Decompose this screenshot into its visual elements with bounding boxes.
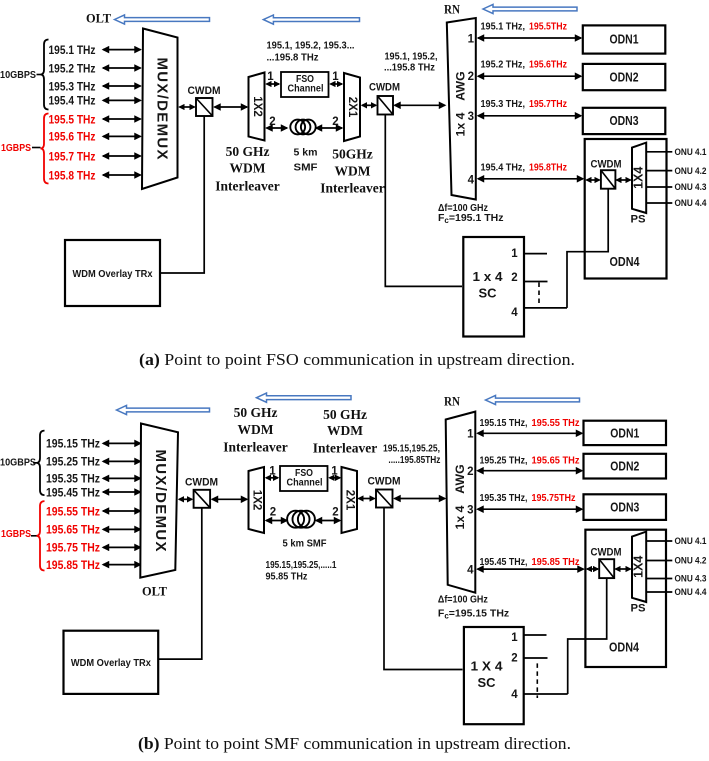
wire AWG port2 to ODN2 (a): [478, 75, 581, 77]
svg-text:...195.8 THz: ...195.8 THz: [267, 52, 319, 64]
svg-text:ONU 4.3: ONU 4.3: [675, 182, 707, 193]
wire CWDM to splitter 1X4 (b): [616, 568, 631, 570]
svg-text:ONU 4.4: ONU 4.4: [675, 587, 708, 598]
svg-text:195.25 THz,: 195.25 THz,: [480, 455, 528, 467]
tick 1GBPS to bracket (b): [31, 535, 37, 537]
splitter CWDM (b-OLT): [194, 490, 211, 508]
svg-text:AWG: AWG: [453, 464, 467, 493]
svg-text:SC: SC: [479, 286, 498, 301]
wire CWDM down to SC (b): [384, 508, 463, 670]
splitter CWDM (b-ODN4): [599, 559, 614, 578]
svg-text:195.15 THz,: 195.15 THz,: [480, 417, 528, 429]
svg-text:MUX/DEMUX: MUX/DEMUX: [152, 450, 169, 552]
svg-text:195.15,195.25,: 195.15,195.25,: [383, 443, 440, 455]
wire MUX to CWDM (b): [179, 498, 192, 500]
net labels row3 (b): [480, 492, 576, 504]
svg-text:WDM: WDM: [230, 161, 266, 176]
svg-text:Interleaver: Interleaver: [320, 181, 384, 196]
wire AWG port1 to ODN1 (a): [478, 37, 581, 39]
wire to ONU 4.3 (a): [646, 186, 672, 188]
svg-text:3: 3: [467, 505, 473, 517]
wire CWDM down to WDM Overlay TRx (a): [161, 117, 204, 274]
wire 1X2 to coil (b): [266, 520, 287, 522]
upstream arrow a3: [483, 4, 577, 13]
wire to ONU 4.1 (a): [646, 151, 672, 153]
svg-text:1GBPS: 1GBPS: [1, 143, 31, 154]
wire CWDM down junction (a-ODN4): [567, 189, 608, 308]
svg-text:195.15,195.25,.....1: 195.15,195.25,.....1: [266, 559, 337, 571]
svg-text:MUX/DEMUX: MUX/DEMUX: [154, 58, 171, 160]
svg-text:1: 1: [467, 429, 474, 441]
svg-text:Interleaver: Interleaver: [313, 441, 377, 456]
wire CWDM to AWG (b): [395, 498, 446, 500]
wire AWG port3 to ODN3 (a): [478, 115, 581, 117]
svg-text:5 km SMF: 5 km SMF: [283, 538, 328, 550]
svg-text:ONU 4.2: ONU 4.2: [675, 556, 707, 567]
wire MUX to CWDM (a): [180, 106, 195, 108]
svg-text:195.1 THz,: 195.1 THz,: [481, 21, 526, 33]
wire AWG port4 to ODN4 (b): [478, 568, 584, 570]
upstream arrow a2: [263, 15, 359, 24]
net labels row1 (a): [481, 21, 568, 33]
odn ODN3 (a): [583, 108, 666, 134]
splitter 1X4 PS (b): [632, 532, 646, 602]
svg-text:4: 4: [467, 565, 474, 577]
wire to ONU 4.2 (b): [646, 560, 672, 562]
svg-text:195.85 THz: 195.85 THz: [46, 558, 100, 572]
svg-text:195.1, 195.2, 195.3...: 195.1, 195.2, 195.3...: [267, 40, 355, 52]
svg-text:2X1: 2X1: [346, 97, 358, 118]
tick 1GBPS to bracket (a): [32, 147, 41, 149]
node 195.2 THz with wire (a-left row 2): [49, 61, 141, 75]
node 195.6 THz with wire (a-left row 6): [49, 130, 141, 144]
wire CWDM down to WDM Overlay TRx (b): [159, 508, 202, 659]
svg-text:195.55 THz: 195.55 THz: [46, 504, 100, 518]
svg-text:(a) Point to point FSO communi: (a) Point to point FSO communication in …: [139, 350, 575, 369]
svg-text:PS: PS: [631, 603, 646, 615]
interleaver 2X1 (a): [344, 73, 360, 141]
svg-text:4: 4: [511, 307, 518, 319]
FSO channel box (b): [280, 466, 328, 491]
odn ODN1 (b): [584, 421, 667, 445]
splitter CWDM (b-RN side): [376, 490, 393, 508]
wire coil to 2X1 (b): [316, 520, 340, 522]
interleaver 1X2 (b): [249, 467, 265, 533]
odn ODN4 enclosure (a): [585, 139, 667, 279]
svg-text:ONU 4.2: ONU 4.2: [675, 166, 707, 177]
net labels row4 (b): [480, 556, 580, 568]
svg-text:1GBPS: 1GBPS: [1, 529, 31, 540]
svg-text:5 km: 5 km: [294, 147, 318, 159]
interleaver 2X1 (b): [342, 467, 358, 533]
wire AWG port3 to ODN3 (b): [478, 508, 583, 510]
FSO channel box (a): [281, 72, 329, 97]
wire SC port1 stub (b): [524, 634, 547, 636]
node 195.4 THz with wire (a-left row 4): [49, 94, 141, 108]
odn ODN3 (b): [584, 494, 667, 520]
svg-text:1x 4: 1x 4: [453, 505, 467, 529]
svg-text:195.45 THz,: 195.45 THz,: [480, 556, 528, 568]
net labels row2 (a): [481, 59, 568, 71]
wire ODN4 edge to CWDM (b): [587, 568, 598, 570]
upstream arrow b1: [117, 405, 210, 414]
wire SC port2 stub (b): [524, 657, 548, 659]
svg-text:ONU 4.3: ONU 4.3: [675, 574, 707, 585]
svg-text:195.6 THz: 195.6 THz: [49, 130, 96, 144]
svg-text:4: 4: [511, 689, 518, 701]
svg-text:195.4 THz: 195.4 THz: [49, 94, 96, 108]
odn ODN2 (b): [584, 454, 667, 479]
svg-text:PS: PS: [631, 214, 646, 226]
wire FSO channel to 2X1 (a): [331, 83, 343, 85]
net labels row2 (b): [480, 455, 580, 467]
wire to ONU 4.4 (b): [646, 591, 672, 593]
wire 1X2 to FSO channel (b): [266, 477, 278, 479]
svg-text:WDM Overlay TRx: WDM Overlay TRx: [73, 268, 153, 280]
net labels row1 (b): [480, 417, 580, 429]
svg-text:195.2 THz,: 195.2 THz,: [481, 59, 526, 71]
odn ODN2 (a): [583, 64, 666, 90]
svg-text:1x 4: 1x 4: [453, 112, 467, 136]
svg-text:ODN4: ODN4: [609, 640, 640, 655]
svg-text:4: 4: [468, 175, 475, 187]
svg-text:ODN4: ODN4: [610, 254, 641, 269]
node 195.45 THz with wire (b-left row 4): [46, 485, 141, 499]
svg-text:Channel: Channel: [288, 84, 324, 95]
svg-text:195.8THz: 195.8THz: [529, 161, 567, 173]
bracket 1GBPS group (b): [37, 501, 45, 570]
svg-text:195.8 THz: 195.8 THz: [49, 168, 96, 182]
svg-text:ONU 4.1: ONU 4.1: [675, 536, 708, 547]
node 195.3 THz with wire (a-left row 3): [49, 79, 141, 93]
svg-text:195.75THz: 195.75THz: [532, 492, 576, 504]
svg-text:195.35 THz,: 195.35 THz,: [480, 492, 528, 504]
svg-text:1X4: 1X4: [632, 556, 646, 578]
svg-text:95.85 THz: 95.85 THz: [266, 571, 308, 583]
node 195.75 THz with wire (b-left row 7): [46, 541, 141, 555]
svg-text:WDM Overlay TRx: WDM Overlay TRx: [71, 657, 151, 669]
coupler SC 1x4 (a): [463, 237, 524, 337]
fiber coil 5km SMF (b): [287, 511, 315, 528]
svg-text:195.25 THz: 195.25 THz: [46, 455, 100, 469]
wire to ONU 4.4 (a): [646, 202, 672, 204]
svg-text:10GBPS: 10GBPS: [0, 70, 36, 81]
odn ODN4 enclosure (b): [585, 530, 666, 667]
wire AWG port2 to ODN2 (b): [478, 470, 583, 472]
svg-text:AWG: AWG: [453, 71, 467, 100]
svg-text:50GHz: 50GHz: [332, 147, 373, 162]
wire to ONU 4.3 (b): [646, 578, 672, 580]
wire 1X2 to coil (a): [267, 127, 288, 129]
awg U4 1x4 AWG (b): [446, 412, 476, 593]
mux U1 MUX/DEMUX (a): [142, 29, 178, 190]
awg U2 1x4 AWG (a): [447, 18, 476, 200]
dashed ellipsis SC ports (b): [536, 663, 538, 698]
wire CWDM down to SC (a): [385, 115, 462, 287]
odn ODN1 (a): [583, 25, 666, 53]
svg-text:2: 2: [468, 71, 474, 83]
svg-text:2: 2: [467, 466, 473, 478]
svg-text:1X2: 1X2: [251, 490, 263, 510]
node 195.8 THz with wire (a-left row 8): [49, 168, 141, 182]
svg-text:CWDM: CWDM: [591, 547, 622, 559]
splitter CWDM (a-RN side): [378, 96, 394, 115]
wire 1X2 to FSO channel (a): [267, 83, 280, 85]
svg-text:1X4: 1X4: [632, 167, 646, 189]
svg-text:SC: SC: [478, 675, 497, 690]
svg-text:195.3 THz: 195.3 THz: [49, 79, 96, 93]
svg-text:ODN2: ODN2: [610, 69, 639, 84]
wire AWG port4 to ODN4 (a): [478, 178, 583, 180]
svg-text:2: 2: [332, 507, 338, 519]
mux U3 MUX/DEMUX (b): [140, 424, 178, 578]
bracket 10GBPS group (a): [41, 40, 49, 110]
wire CWDM to interleaver 1X2 (b): [212, 498, 247, 500]
svg-text:WDM: WDM: [327, 423, 363, 438]
dashed ellipsis SC ports (a): [538, 283, 540, 304]
svg-text:10GBPS: 10GBPS: [0, 458, 36, 469]
svg-text:2: 2: [511, 653, 517, 665]
node 195.35 THz with wire (b-left row 3): [46, 472, 141, 486]
svg-text:1: 1: [269, 466, 276, 478]
svg-text:195.15 THz: 195.15 THz: [46, 437, 100, 451]
node 195.7 THz with wire (a-left row 7): [49, 149, 141, 163]
svg-text:OLT: OLT: [86, 11, 111, 26]
svg-text:3: 3: [468, 111, 474, 123]
svg-text:50 GHz: 50 GHz: [234, 405, 278, 420]
svg-text:195.65 THz: 195.65 THz: [46, 523, 100, 537]
svg-text:ODN3: ODN3: [610, 113, 639, 128]
svg-text:195.6THz: 195.6THz: [529, 59, 567, 71]
svg-text:RN: RN: [444, 3, 460, 17]
svg-text:Channel: Channel: [287, 478, 323, 489]
upstream arrow b2: [257, 393, 352, 402]
svg-text:ODN1: ODN1: [610, 425, 639, 440]
node 195.5 THz with wire (a-left row 5): [49, 112, 141, 126]
svg-text:50 GHz: 50 GHz: [226, 144, 270, 159]
svg-text:1: 1: [267, 71, 274, 83]
svg-text:195.5 THz: 195.5 THz: [49, 112, 96, 126]
wire SC port2 stub (a): [524, 281, 548, 283]
svg-text:195.45 THz: 195.45 THz: [46, 485, 100, 499]
svg-text:ODN3: ODN3: [610, 500, 639, 515]
svg-text:195.7THz: 195.7THz: [529, 98, 567, 110]
svg-text:Fc=195.15 THz: Fc=195.15 THz: [438, 608, 509, 621]
svg-text:2: 2: [511, 272, 517, 284]
net labels row4 (a): [481, 161, 568, 173]
tick 10GBPS to bracket (a): [37, 74, 41, 76]
bracket 1GBPS group (a): [41, 114, 49, 184]
svg-text:1X2: 1X2: [251, 96, 263, 116]
node 195.25 THz with wire (b-left row 2): [46, 455, 141, 469]
coupler SC 1x4 (b): [464, 627, 524, 724]
svg-text:CWDM: CWDM: [368, 476, 401, 488]
wire SC port4 to ODN4 (b): [524, 693, 568, 695]
svg-text:195.55 THz: 195.55 THz: [532, 417, 580, 429]
wire SC port1 stub (a): [524, 253, 547, 255]
svg-text:1 X 4: 1 X 4: [471, 659, 504, 674]
svg-text:RN: RN: [444, 395, 460, 409]
svg-text:2X1: 2X1: [344, 490, 356, 511]
svg-text:2: 2: [270, 507, 276, 519]
wire to ONU 4.2 (a): [646, 170, 672, 172]
svg-text:2: 2: [269, 116, 275, 128]
wire 2X1 to CWDM (b): [359, 498, 375, 500]
svg-text:195.75 THz: 195.75 THz: [46, 541, 100, 555]
svg-text:CWDM: CWDM: [591, 159, 622, 171]
svg-text:ODN2: ODN2: [610, 459, 639, 474]
node 195.55 THz with wire (b-left row 5): [46, 504, 141, 518]
svg-text:Δf=100 GHz: Δf=100 GHz: [438, 594, 488, 606]
svg-text:Interleaver: Interleaver: [223, 440, 287, 455]
fiber coil 5km SMF (a): [290, 120, 315, 135]
svg-text:ODN1: ODN1: [610, 32, 639, 47]
svg-text:1: 1: [511, 248, 518, 260]
svg-text:1: 1: [332, 71, 339, 83]
transceiver WDM Overlay TRx (a): [65, 240, 160, 306]
upstream arrow a1: [115, 15, 210, 24]
svg-text:CWDM: CWDM: [369, 82, 400, 94]
wire CWDM down junction (b-ODN4): [568, 579, 607, 695]
wire ODN4 edge to CWDM (a): [587, 179, 600, 181]
svg-text:195.7 THz: 195.7 THz: [49, 149, 96, 163]
svg-text:195.5THz: 195.5THz: [529, 21, 567, 33]
svg-text:Interleaver: Interleaver: [215, 179, 279, 194]
svg-text:195.3 THz,: 195.3 THz,: [481, 98, 526, 110]
svg-text:(b) Point to point SMF communi: (b) Point to point SMF communication in …: [138, 734, 571, 753]
wire SC port4 to ODN4 (a): [524, 307, 567, 309]
svg-text:195.1 THz: 195.1 THz: [49, 43, 96, 57]
splitter CWDM (a-ODN4): [601, 170, 616, 189]
net labels row3 (a): [481, 98, 568, 110]
node 195.85 THz with wire (b-left row 8): [46, 558, 141, 572]
svg-text:195.2 THz: 195.2 THz: [49, 61, 96, 75]
svg-text:ONU 4.1: ONU 4.1: [675, 147, 708, 158]
wire coil to 2X1 (a): [316, 127, 342, 129]
svg-text:1: 1: [511, 632, 518, 644]
svg-text:195.4 THz,: 195.4 THz,: [481, 161, 526, 173]
svg-text:195.85 THz: 195.85 THz: [532, 556, 580, 568]
svg-text:WDM: WDM: [238, 422, 274, 437]
svg-text:SMF: SMF: [294, 162, 319, 174]
bracket 10GBPS group (b): [37, 431, 45, 496]
interleaver 1X2 (a): [249, 73, 265, 141]
upstream arrow b3: [486, 395, 580, 404]
svg-text:195.65 THz: 195.65 THz: [532, 455, 580, 467]
svg-text:ONU 4.4: ONU 4.4: [675, 198, 708, 209]
splitter 1X4 PS (a): [632, 143, 646, 213]
svg-text:CWDM: CWDM: [188, 85, 221, 97]
node 195.1 THz with wire (a-left row 1): [49, 43, 141, 57]
svg-text:195.35 THz: 195.35 THz: [46, 472, 100, 486]
svg-text:2: 2: [332, 116, 338, 128]
wire 2X1 to CWDM (a): [362, 104, 376, 106]
svg-text:WDM: WDM: [335, 164, 371, 179]
svg-text:1: 1: [331, 466, 338, 478]
svg-text:OLT: OLT: [142, 584, 167, 599]
wire to ONU 4.1 (b): [646, 540, 672, 542]
svg-text:...195.8 THz: ...195.8 THz: [384, 62, 435, 74]
transceiver WDM Overlay TRx (b): [64, 631, 159, 694]
svg-text:50 GHz: 50 GHz: [323, 407, 367, 422]
wire AWG port1 to ODN1 (b): [478, 432, 583, 434]
node 195.15 THz with wire (b-left row 1): [46, 437, 141, 451]
svg-text:.....195.85THz: .....195.85THz: [388, 454, 440, 466]
svg-text:CWDM: CWDM: [185, 477, 218, 489]
wire CWDM to splitter 1X4 (a): [617, 179, 631, 181]
wire FSO channel to 2X1 (b): [330, 477, 341, 479]
svg-text:1 x 4: 1 x 4: [473, 269, 504, 284]
svg-text:1: 1: [468, 34, 475, 46]
splitter CWDM (a-OLT): [196, 98, 213, 116]
wire CWDM to AWG (a): [395, 104, 446, 106]
wire CWDM to interleaver 1X2 (a): [215, 106, 248, 108]
node 195.65 THz with wire (b-left row 6): [46, 523, 141, 537]
tick 10GBPS to bracket (b): [33, 462, 37, 464]
